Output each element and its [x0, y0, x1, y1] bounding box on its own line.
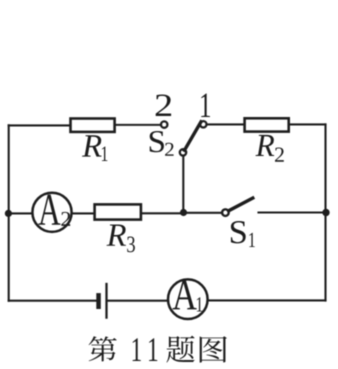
- wire R1 to S2 contact 2: [116, 124, 161, 126]
- switch S2 pivot: [180, 149, 186, 155]
- switch S1 blade: [229, 198, 253, 211]
- label S2: [150, 131, 174, 156]
- wire S2 contact 1 to R2: [207, 123, 244, 125]
- label R1: [82, 135, 107, 161]
- battery positive plate: [105, 284, 107, 318]
- label R2: [256, 135, 284, 162]
- node middle junction: [180, 209, 187, 216]
- label A2 (inside ammeter A2): [38, 195, 70, 226]
- wire A2 to R3: [72, 212, 93, 214]
- wire A1 to bottom-right corner: [208, 299, 326, 301]
- switch S1 contact: [222, 209, 229, 216]
- wire R3 to middle node: [142, 212, 183, 214]
- node right junction: [322, 209, 329, 216]
- resistor R3: [95, 204, 141, 219]
- wire S2 pivot down to middle node: [182, 156, 184, 213]
- wire battery to ammeter A1: [108, 300, 168, 302]
- wire bottom-left to battery: [9, 300, 97, 302]
- switch S2 contact point 2: [161, 121, 167, 127]
- wire left vertical: [8, 125, 10, 300]
- label 2 (S2 throw position): [156, 94, 171, 116]
- caption: 第 11 题图: [89, 336, 227, 363]
- ammeter A2: [32, 193, 71, 232]
- label A1 (inside ammeter A1): [172, 280, 202, 311]
- wire left junction to ammeter A2: [8, 212, 31, 214]
- resistor R1: [71, 119, 115, 132]
- wire R2 to top-right corner: [290, 123, 326, 125]
- wire right vertical: [324, 124, 326, 300]
- node left junction: [5, 210, 12, 217]
- ammeter A1: [168, 279, 208, 319]
- wire S1 to right junction: [259, 211, 326, 213]
- switch S2 contact point 1: [200, 121, 206, 127]
- wire top-left to R1: [9, 124, 70, 126]
- label R3: [106, 225, 134, 253]
- switch S2 blade: [185, 122, 202, 150]
- battery negative plate: [96, 293, 101, 309]
- label S1: [231, 221, 255, 247]
- wire middle node to S1: [184, 212, 222, 214]
- resistor R2: [245, 118, 289, 131]
- label 1 (S2 throw position): [201, 94, 210, 117]
